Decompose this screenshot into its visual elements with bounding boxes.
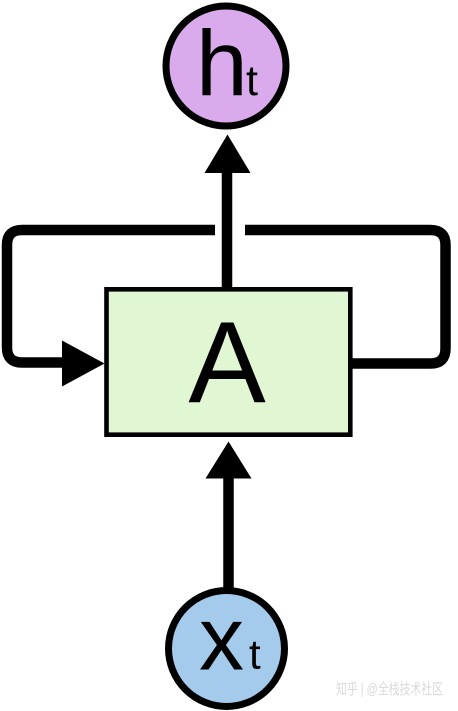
arrowhead: input arrow into box A <box>206 442 252 479</box>
svg-text:t: t <box>246 57 258 105</box>
box A: RNN cell <box>107 289 351 434</box>
svg-text:知乎 | @全栈技术社区: 知乎 | @全栈技术社区 <box>336 680 443 698</box>
wire: recurrent loop, left half (across top, down left side, to arrow) <box>7 230 215 363</box>
wire: recurrent loop, right half (from box A right side, up and across) <box>245 230 446 364</box>
svg-text:t: t <box>249 631 261 678</box>
svg-text:x: x <box>199 590 244 690</box>
arrowhead: loop into box A left side <box>62 341 105 387</box>
wire: output arrow shaft from box A to h_t <box>222 170 233 289</box>
svg-text:h: h <box>196 12 248 116</box>
node x_t: input circle <box>169 591 285 707</box>
node h_t: output circle <box>166 6 286 126</box>
arrowhead: output arrow into h_t <box>205 135 251 174</box>
wire: input arrow shaft from x_t to box A <box>223 474 234 588</box>
svg-text:A: A <box>188 298 266 428</box>
